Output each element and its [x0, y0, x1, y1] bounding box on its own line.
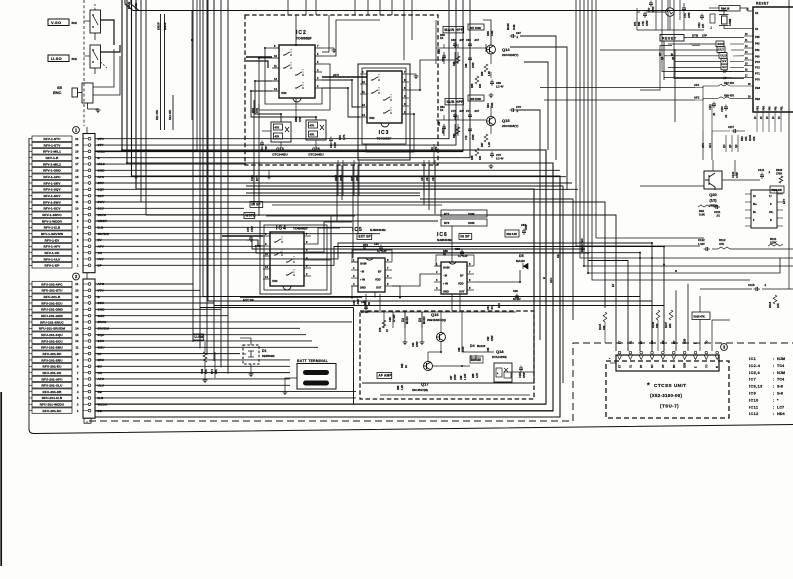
wire bus loop 1	[95, 0, 546, 404]
svg-text:2SB1182F3(Q): 2SB1182F3(Q)	[427, 318, 446, 322]
junction node	[191, 39, 193, 41]
svg-text:MA110: MA110	[423, 316, 426, 324]
pin IC4 left 236	[263, 235, 270, 237]
svg-text:AF4: AF4	[425, 175, 429, 181]
svg-text:IN SP: IN SP	[251, 203, 261, 207]
node 3 circled connector number	[721, 344, 728, 351]
svg-text:R88: R88	[472, 373, 475, 378]
svg-text::: :	[773, 405, 774, 409]
svg-text:21: 21	[75, 137, 79, 141]
wire top right risers	[655, 0, 657, 30]
transistor Q19 oscillator	[666, 8, 674, 16]
svg-text:ET: ET	[611, 283, 615, 287]
svg-text:C61: C61	[329, 143, 333, 148]
wire riser 573 extension	[572, 300, 574, 320]
svg-text:VDD: VDD	[375, 278, 381, 282]
wire ULU EV EU nets	[664, 55, 719, 57]
wire IC5 to IC6 link	[392, 274, 434, 286]
connector J1 body	[83, 134, 95, 273]
svg-text:1K: 1K	[440, 108, 443, 112]
label RFU-201-WDDU	[32, 402, 72, 407]
svg-text:PT2: PT2	[755, 66, 760, 70]
svg-text:C81: C81	[374, 242, 379, 246]
wire WSTB run	[266, 215, 355, 217]
svg-text:R82 3.9K: R82 3.9K	[507, 233, 518, 236]
wire net I2.B run	[95, 226, 352, 228]
svg-text:C97: C97	[450, 375, 453, 380]
label RFV-1-STV	[32, 142, 72, 147]
svg-text:C90: C90	[513, 289, 518, 293]
svg-text:X2: X2	[755, 11, 759, 15]
connector J2 body	[83, 279, 95, 418]
capacitor C68 2.2 4V electrolytic	[490, 81, 494, 83]
svg-text:PB2: PB2	[755, 97, 761, 101]
wire net WDDU run (sub)	[95, 403, 546, 405]
wire Q15 collector	[490, 106, 492, 117]
ground Q15 emitter network	[490, 164, 492, 166]
wire IC2 pin loop b	[259, 58, 330, 110]
pin IC10 left 210	[745, 209, 751, 211]
svg-text:C7B: C7B	[642, 21, 645, 26]
wire Q23 connections	[295, 98, 297, 120]
label box ULU	[719, 53, 727, 59]
wire bus stair 3	[208, 0, 652, 301]
svg-text:NJM: NJM	[777, 357, 785, 361]
IC3 switch a	[371, 79, 373, 81]
wire corner e riser 573	[420, 199, 573, 300]
svg-text:Q17: Q17	[421, 382, 429, 387]
capacitor C73 .1	[511, 108, 513, 112]
capacitor C117 cap	[733, 129, 735, 133]
wire HPF main chain	[436, 47, 486, 49]
label RFU-201-SMU	[32, 345, 72, 350]
svg-text:ET: ET	[619, 364, 622, 368]
svg-text:19: 19	[75, 295, 79, 299]
svg-text:IC11: IC11	[749, 405, 758, 409]
svg-text:12: 12	[75, 339, 79, 343]
label box MAIN HPF	[443, 27, 464, 33]
pin IC3 right 74	[402, 73, 409, 75]
svg-text:RFU-201-ULU: RFU-201-ULU	[41, 384, 63, 388]
resistor R63 5.6K rotated	[456, 127, 460, 134]
svg-text:2SC4118(Y): 2SC4118(Y)	[502, 124, 518, 128]
transistor Q16	[437, 333, 446, 342]
pin J3 5 CP	[661, 355, 665, 360]
ground IC3 pin7	[409, 73, 416, 75]
svg-text:R109: R109	[776, 168, 783, 172]
label RFV-1-CK	[32, 250, 72, 255]
wire right rail 273	[588, 0, 780, 273]
svg-text:C86: C86	[388, 317, 392, 322]
svg-text:RFV-1-B: RFV-1-B	[46, 156, 59, 160]
svg-text:R64: R64	[486, 103, 490, 108]
svg-text:MAIN HPF: MAIN HPF	[444, 28, 464, 32]
svg-text:NJM: NJM	[777, 371, 785, 375]
svg-text:RFU-201-EU: RFU-201-EU	[43, 365, 63, 369]
resistor R67 1.2K rotated	[484, 134, 488, 142]
resistor R106 33K rotated	[656, 310, 660, 320]
svg-text:TO: TO	[705, 365, 708, 368]
svg-text:47K: 47K	[255, 108, 259, 113]
wire solid enclosure AF left	[200, 307, 354, 309]
wire C115 row	[700, 288, 752, 290]
svg-text:MA110: MA110	[516, 259, 525, 263]
svg-text:17: 17	[75, 308, 79, 312]
wire net STU run (sub)	[95, 0, 200, 290]
pin IC3 left 94	[360, 93, 367, 95]
svg-text:RFV-1-ULV: RFV-1-ULV	[44, 257, 61, 261]
svg-text:U.SO: U.SO	[51, 56, 62, 61]
svg-text:68 10V: 68 10V	[361, 311, 369, 314]
wire net DP jog run to CTCSS	[95, 247, 664, 352]
svg-text:VR6: VR6	[200, 368, 204, 374]
IC3 switch b	[371, 92, 373, 94]
svg-text:16: 16	[75, 169, 79, 173]
svg-text:MA110: MA110	[477, 344, 486, 348]
svg-text:3.58M: 3.58M	[728, 19, 732, 26]
svg-text:18: 18	[75, 301, 79, 305]
wire S5 ground leg	[87, 103, 89, 109]
svg-text:Q14: Q14	[502, 47, 510, 52]
pin IC2 left 91	[272, 90, 279, 92]
svg-text:4.7K: 4.7K	[476, 373, 479, 378]
wire net SRV run	[95, 182, 572, 184]
svg-text:EXT SP: EXT SP	[358, 235, 371, 239]
svg-text::: :	[773, 371, 774, 375]
svg-text::: :	[773, 378, 774, 382]
capacitor C67 .1	[511, 34, 513, 38]
svg-text:IC5: IC5	[352, 227, 363, 233]
wire net AFV jog run	[95, 246, 588, 253]
svg-text:RT2: RT2	[210, 369, 214, 374]
wire HPF output corner c	[516, 110, 540, 340]
pin IC2 right 88	[315, 87, 322, 89]
ground D2	[404, 340, 406, 342]
label RFU-201-CK	[32, 370, 72, 375]
connector J1 top stub	[86, 127, 88, 134]
svg-text:PB3: PB3	[755, 86, 761, 90]
capacitor C65 .047	[468, 43, 472, 45]
svg-text:RFV-1-SQV: RFV-1-SQV	[43, 188, 61, 192]
svg-text:47K: 47K	[298, 117, 302, 122]
wire bus loop 2	[95, 0, 553, 411]
svg-text:C120: C120	[731, 171, 735, 178]
pin IC5 left 1	[351, 261, 358, 263]
svg-text:C7A: C7A	[684, 13, 687, 18]
pin IC10 right 226	[777, 225, 783, 227]
junction dots sprinkle	[351, 297, 353, 299]
svg-text:D3: D3	[418, 318, 422, 322]
wire IC3 inner loop	[362, 68, 406, 144]
capacitor C121 .1	[760, 174, 764, 176]
wire net SRUC run (sub)	[95, 321, 352, 323]
svg-text:+ IN: + IN	[360, 278, 365, 282]
capacitor C115 .1	[755, 287, 757, 291]
svg-text:100K: 100K	[468, 212, 475, 216]
transistor Q18 network box	[494, 363, 512, 382]
IC2 switch b	[283, 67, 285, 69]
wire D1 bottom ground	[250, 364, 252, 372]
connector J2 top stub	[86, 273, 88, 279]
wire net SRVDW run	[95, 233, 380, 235]
crystal X1 3.58M	[722, 16, 728, 24]
IC2 switch c	[295, 74, 297, 76]
wire tone box internal verticals	[253, 100, 255, 205]
svg-text:R87 10K: R87 10K	[472, 359, 482, 362]
svg-text:RFV-1-M/L1: RFV-1-M/L1	[43, 150, 61, 154]
svg-text:20: 20	[75, 143, 79, 147]
resistor R77 100K box	[441, 210, 487, 217]
pin J3 4 NC	[650, 355, 654, 360]
svg-text:TC4066BF: TC4066BF	[296, 37, 312, 41]
wire net B run (sub)	[95, 0, 207, 297]
label box SUB HPF	[445, 99, 463, 105]
svg-text:13: 13	[75, 333, 79, 337]
svg-text:RFU-201-DP: RFU-201-DP	[43, 352, 62, 356]
pin IC10 left 194	[745, 193, 751, 195]
svg-text:DE5504M: DE5504M	[262, 354, 275, 358]
svg-text:470P: 470P	[652, 6, 655, 12]
wire IC2 pin loop a	[265, 48, 322, 104]
wire net SB run (sub)	[95, 391, 356, 393]
svg-text:270K: 270K	[776, 171, 782, 175]
wire osc bottom rail	[637, 29, 704, 31]
wire corner d	[510, 47, 567, 190]
wire net SRU run (sub)	[95, 359, 290, 361]
svg-text:470P: 470P	[333, 142, 337, 148]
pin IC2 left 58	[272, 57, 279, 59]
svg-text:RFU-201-SRUDM: RFU-201-SRUDM	[39, 327, 66, 331]
svg-text:C78: C78	[246, 227, 250, 232]
label RFU-201-SCU	[32, 338, 72, 343]
svg-text:C95: C95	[487, 347, 490, 352]
label RFU-201-SRUC	[32, 319, 72, 324]
wire rail y193	[246, 192, 420, 194]
label RFV-1-M/L2	[32, 161, 72, 166]
wire IC4 right loops	[311, 228, 340, 244]
svg-text:C115: C115	[748, 283, 755, 287]
wire AF1 rail	[540, 87, 695, 89]
wire IN SP run	[272, 204, 442, 206]
label box EU	[721, 64, 727, 70]
label box U-SM	[193, 334, 204, 340]
wire left edge bus (page edge)	[28, 138, 30, 429]
pin IC3 left 84	[360, 83, 367, 85]
svg-text:R76: R76	[379, 327, 382, 332]
capacitor C88 4.7 6.3V	[460, 251, 464, 253]
wire net GND run (sub)	[95, 0, 228, 316]
svg-text:2SC4617(M): 2SC4617(M)	[412, 388, 428, 392]
svg-text:33K: 33K	[603, 325, 606, 330]
svg-text:470P: 470P	[523, 372, 526, 378]
svg-text:AF1: AF1	[420, 175, 424, 181]
resistor R87 10K box	[470, 356, 483, 363]
label RFU-201-APC	[32, 281, 72, 286]
svg-text:17: 17	[75, 162, 79, 166]
svg-text:GND: GND	[443, 290, 449, 294]
wire IC2-IC3 link loop b	[322, 88, 360, 117]
svg-text:ENUP: ENUP	[157, 22, 161, 30]
svg-text:47K: 47K	[275, 135, 280, 139]
svg-text:470P: 470P	[250, 226, 254, 232]
svg-text:IC9: IC9	[749, 392, 756, 396]
pin IC2 right 80	[315, 79, 322, 81]
pot U.SO label box	[48, 55, 69, 62]
svg-text:C93: C93	[412, 342, 415, 347]
pin IC5 left 2	[351, 269, 358, 271]
label box WSTB	[244, 213, 255, 219]
label RFV-1-SWV	[32, 199, 72, 204]
wire HPF output corner b	[524, 62, 548, 150]
junction dots pass3	[254, 80, 256, 82]
wire net SRUDM run (sub)	[95, 327, 300, 329]
svg-text:D5: D5	[519, 254, 524, 258]
wire AF2 feed	[695, 98, 703, 100]
svg-text:470P: 470P	[462, 346, 465, 352]
pin IC6 right 7	[467, 273, 474, 275]
wire HPF cap leads sub	[443, 115, 445, 120]
wire mcu area risers	[702, 86, 704, 131]
label RFV-1-SCV	[32, 193, 72, 198]
svg-text:47K: 47K	[310, 124, 315, 128]
svg-text:P65: P65	[755, 35, 760, 39]
svg-text:RFU-201-SMU: RFU-201-SMU	[41, 346, 63, 350]
svg-text:330: 330	[479, 83, 482, 88]
svg-text:470P: 470P	[454, 374, 457, 380]
svg-text:TC4: TC4	[777, 378, 785, 382]
svg-text:RFU-201-GND: RFU-201-GND	[41, 314, 63, 318]
resistor R110 33K box	[770, 186, 784, 193]
svg-text:1 16V: 1 16V	[464, 373, 467, 380]
wire HPF cap leads main	[443, 44, 445, 48]
wire AFV link IC2-IC3	[322, 76, 367, 78]
connector J2 bottom stub	[84, 418, 91, 423]
op IC10 comparator body	[751, 190, 777, 228]
wire switch SW-V output	[101, 20, 115, 45]
svg-text::: :	[773, 385, 774, 389]
wire AF amp leads	[383, 312, 385, 328]
svg-text:10: 10	[75, 352, 79, 356]
svg-text:R73: R73	[363, 243, 368, 247]
svg-text:100K: 100K	[468, 221, 475, 225]
wire top right risers extra	[667, 0, 669, 30]
svg-text:R60: R60	[471, 83, 474, 88]
svg-text:IC3: IC3	[379, 130, 390, 136]
ground S5	[97, 108, 99, 110]
label box RESET	[660, 35, 684, 42]
wire IC5 drops to AF box	[365, 294, 367, 311]
wire riser to J3 pin2	[588, 261, 628, 352]
svg-text:35K: 35K	[214, 369, 218, 374]
wire ENUP riser	[160, 14, 162, 130]
wire mid column risers	[336, 165, 338, 221]
svg-text:RFV-1-AFV: RFV-1-AFV	[44, 245, 62, 249]
resistor R113 10K rotated	[773, 295, 777, 304]
svg-text:C77: C77	[648, 7, 651, 12]
wire IC2 thick feed	[246, 56, 272, 58]
svg-text:OUT: OUT	[376, 286, 382, 290]
svg-text:15: 15	[75, 175, 79, 179]
label RFU-201-SQU	[32, 332, 72, 337]
svg-text:- IN: - IN	[443, 274, 447, 278]
transistor Q14	[487, 45, 496, 54]
svg-text:R66 150K: R66 150K	[470, 97, 482, 101]
svg-text:C70: C70	[451, 109, 456, 113]
wire HPF output corner a	[520, 36, 556, 160]
wire net SMU run (sub)	[95, 346, 318, 348]
wire net SWV run	[95, 201, 250, 203]
capacitor C118 .01 rotated	[724, 106, 728, 108]
capacitor C112 27P rotated	[700, 15, 704, 17]
svg-text:P83: P83	[770, 106, 772, 111]
svg-text:CP: CP	[659, 52, 662, 56]
pin J3 1 ET	[617, 355, 621, 360]
svg-text:RFV-1-SRV: RFV-1-SRV	[43, 181, 61, 185]
svg-text:RFU-201-SCU: RFU-201-SCU	[41, 301, 63, 305]
svg-text:SDB: SDB	[684, 363, 687, 368]
svg-text:.047: .047	[490, 304, 494, 310]
wire net AFU run (sub)	[95, 378, 290, 380]
ground GND net stub	[135, 170, 137, 174]
svg-text::: :	[773, 398, 774, 402]
wire net SC run (sub)	[95, 410, 553, 412]
resistor R68 330	[475, 148, 479, 156]
pin IC3 left 74	[360, 73, 367, 75]
switch SW-U	[90, 45, 101, 68]
svg-text:TC4066BF: TC4066BF	[293, 227, 308, 231]
wire net ULU run (sub)	[95, 384, 290, 386]
connector J3 CTCSS body	[616, 355, 719, 371]
pin IC5 left 3	[351, 277, 358, 279]
svg-text:11: 11	[75, 200, 78, 204]
pin IC3 left 107	[360, 106, 367, 108]
svg-text:4.7K: 4.7K	[342, 134, 346, 140]
pin IC2 left 48	[272, 47, 279, 49]
wire IC5 top loop	[352, 250, 392, 262]
svg-text:ENC: ENC	[53, 90, 62, 95]
svg-text:RFV-1-M/L2: RFV-1-M/L2	[43, 162, 61, 166]
battery contact 1	[303, 370, 329, 375]
pin IC4 left 279	[263, 278, 270, 280]
wire DP run long	[662, 57, 744, 72]
svg-text:X1: X1	[755, 27, 759, 31]
svg-text:C98: C98	[460, 375, 463, 380]
svg-text:.0047: .0047	[356, 298, 360, 305]
svg-text::: :	[773, 357, 774, 361]
svg-text:R108 47K: R108 47K	[694, 315, 705, 318]
svg-text:22K: 22K	[669, 323, 672, 328]
capacitor C75 3.3 4V electrolytic	[490, 153, 494, 155]
mcu numbered pin stubs	[744, 35, 753, 37]
resistor R66 150K box	[468, 95, 484, 101]
svg-text:D4: D4	[470, 344, 475, 348]
svg-text:C118: C118	[721, 106, 724, 112]
wire C117 run	[712, 130, 730, 132]
wire bus loop 4	[136, 0, 534, 383]
wire IC2 loop to Q23	[251, 91, 316, 120]
svg-text:RFV-1-STU: RFV-1-STU	[44, 137, 62, 141]
diode D1 DE5504M dashed box	[243, 345, 259, 364]
label box AF AMP	[377, 373, 392, 379]
svg-text:IC1: IC1	[749, 357, 756, 361]
pin J3 6 BP	[672, 355, 676, 360]
svg-text:TC4066BF: TC4066BF	[377, 137, 392, 141]
IC3 switch d	[383, 112, 385, 114]
svg-text:10K: 10K	[776, 303, 780, 308]
svg-text:R77: R77	[444, 212, 450, 216]
label RFU-201-AFU	[32, 376, 72, 381]
svg-text:3.3 4V: 3.3 4V	[496, 156, 504, 160]
